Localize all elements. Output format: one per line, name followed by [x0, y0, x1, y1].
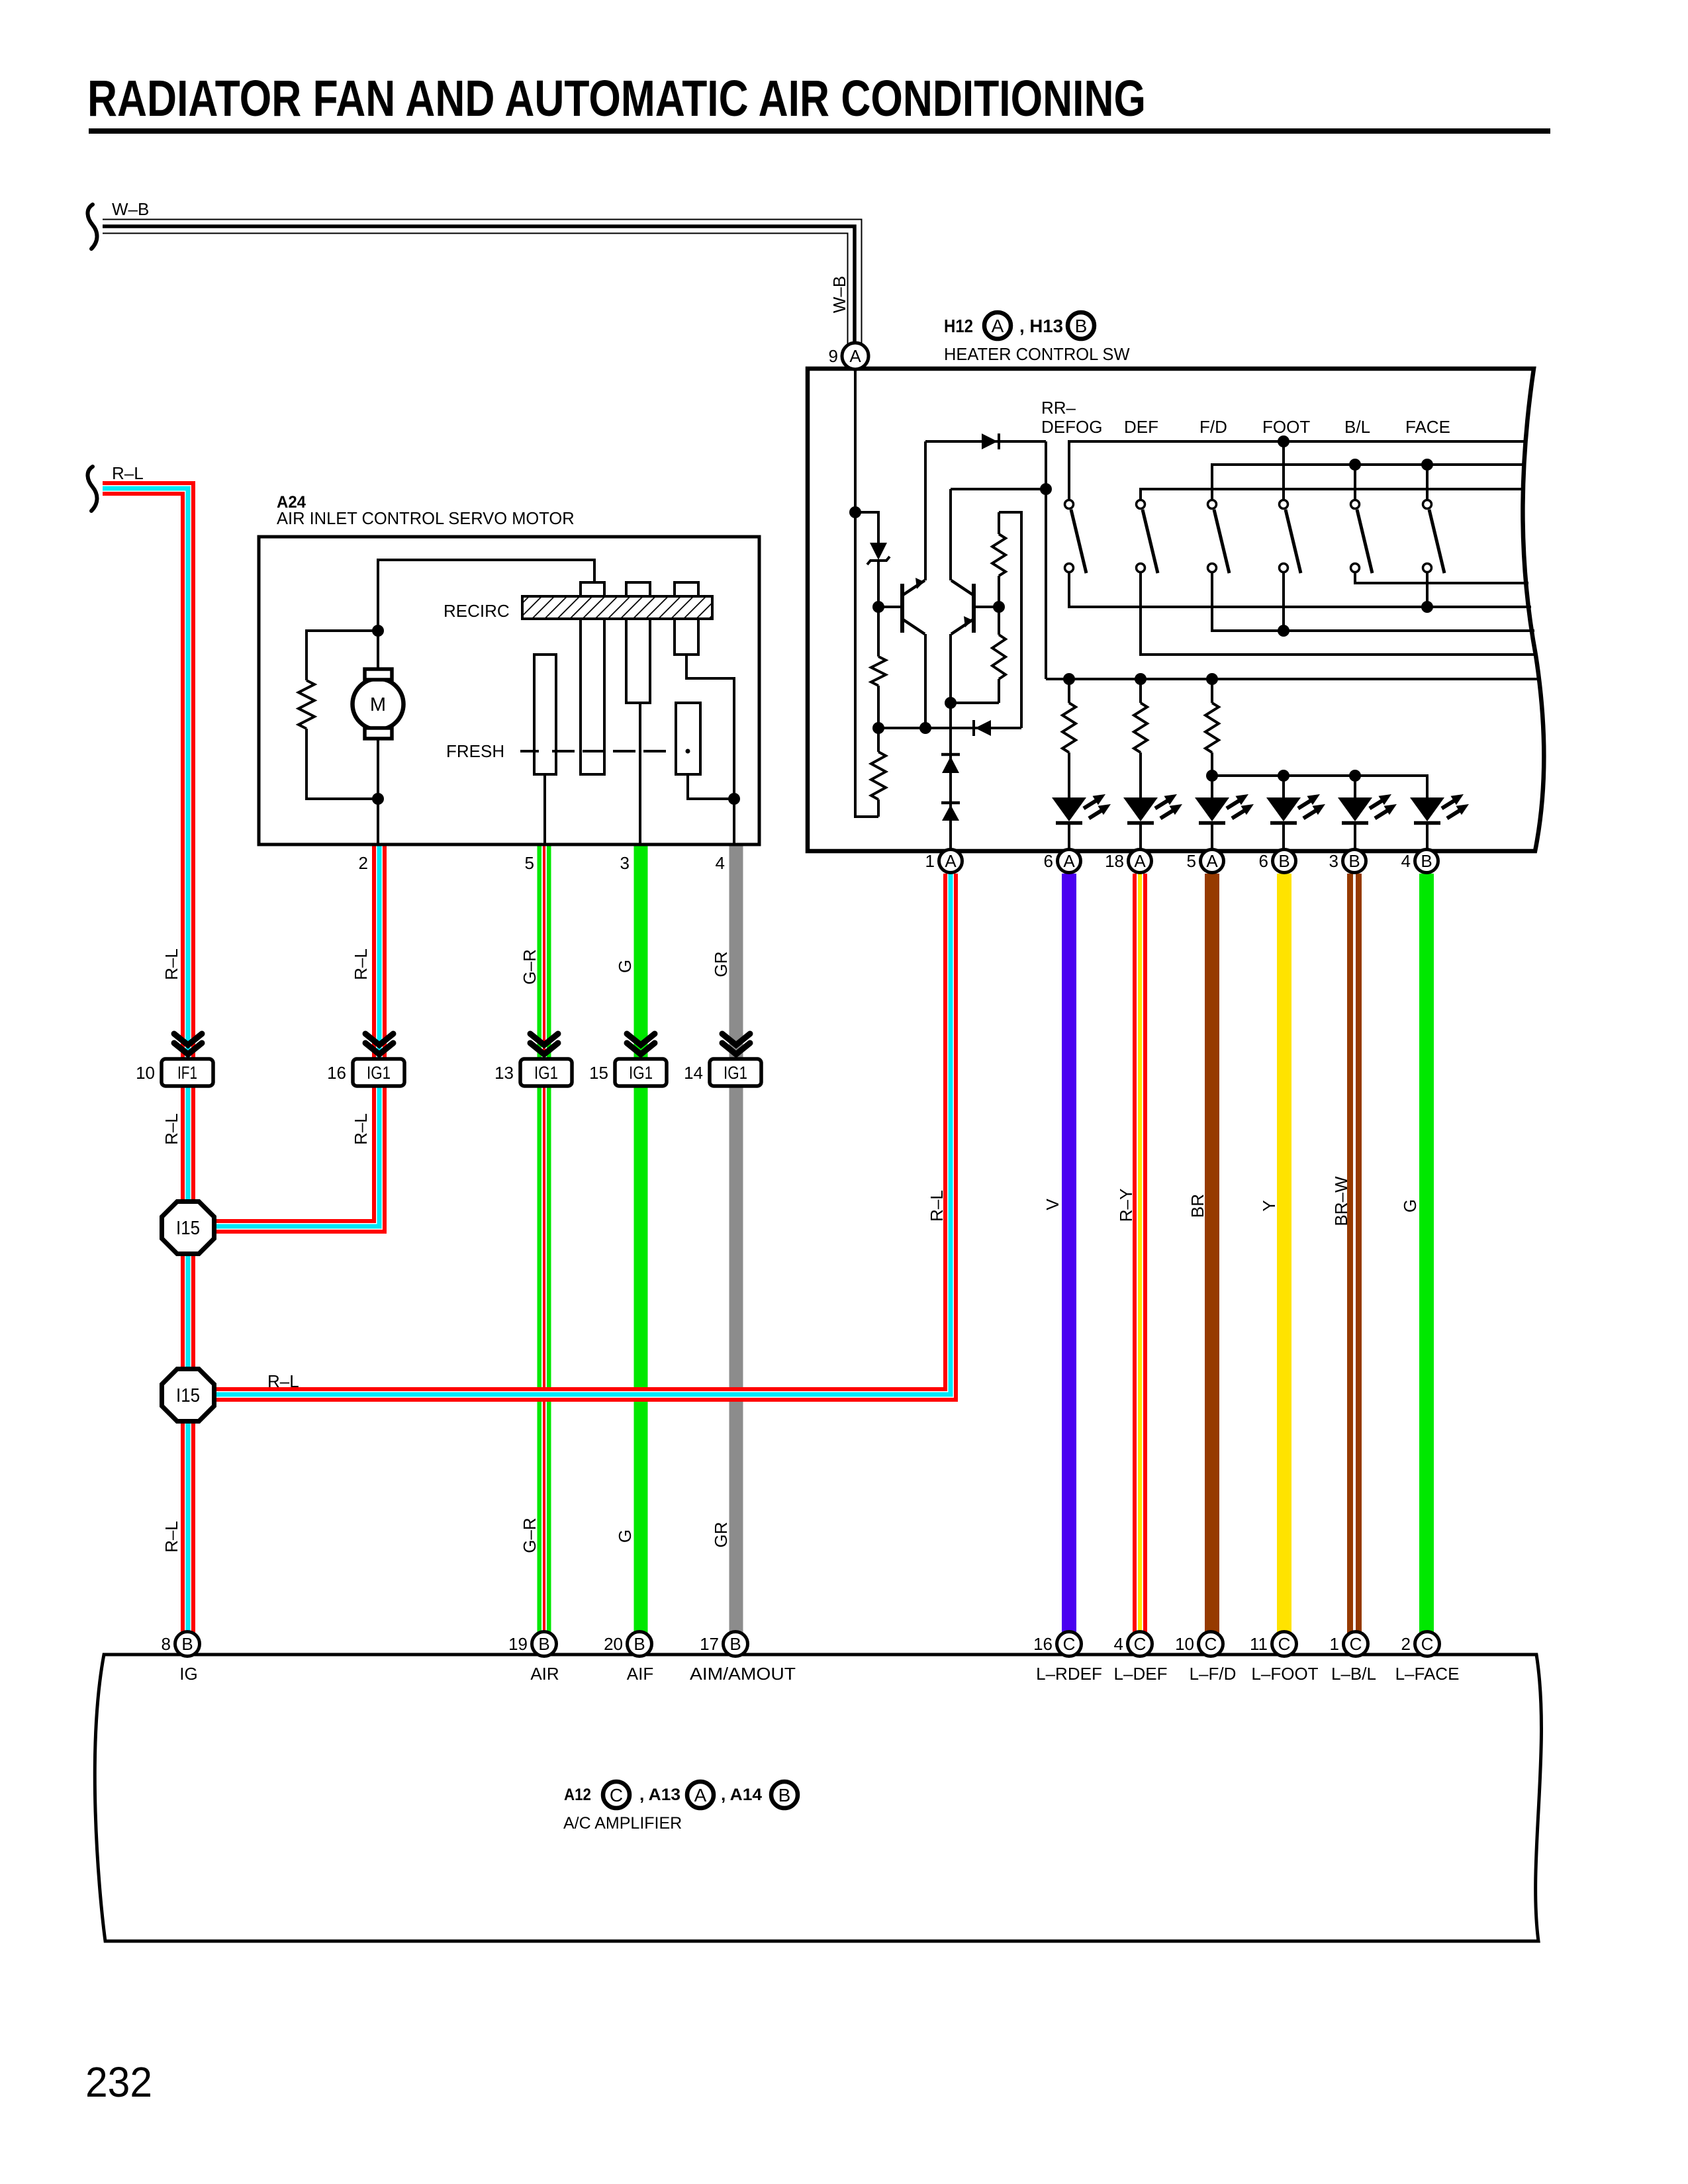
svg-text:B: B	[181, 1634, 193, 1654]
diode D3	[941, 753, 960, 756]
junction Q1 base node	[872, 601, 884, 613]
svg-text:I15: I15	[176, 1385, 200, 1406]
connector 14 IG1	[710, 1059, 761, 1086]
wire B/L LED lead	[1354, 776, 1356, 797]
svg-text:IG1: IG1	[629, 1063, 653, 1083]
svg-text:BR–W: BR–W	[1331, 1176, 1351, 1226]
svg-text:GR: GR	[711, 1522, 731, 1548]
svg-text:IG: IG	[179, 1664, 197, 1684]
svg-text:R–L: R–L	[267, 1371, 299, 1391]
wire W-B outer thin	[103, 220, 862, 344]
junction Q2 collector net	[1040, 483, 1052, 495]
resistor R5 leads	[877, 728, 880, 752]
resistor R7	[1134, 703, 1147, 752]
wire net N6 (F/D,FOOT bottoms)	[1212, 572, 1534, 631]
svg-text:20: 20	[604, 1634, 623, 1654]
connector circle A13 A	[687, 1782, 714, 1808]
svg-text:G: G	[615, 1529, 635, 1543]
chevron arrows x822	[530, 1034, 558, 1045]
junction N6 FOOT	[1278, 625, 1289, 637]
wire R3 to emitter column	[951, 702, 999, 704]
switch F/D	[1214, 510, 1229, 573]
svg-text:C: C	[1278, 1634, 1291, 1654]
svg-text:A24: A24	[277, 493, 306, 512]
svg-text:RADIATOR FAN AND AUTOMATIC AIR: RADIATOR FAN AND AUTOMATIC AIR CONDITION…	[87, 70, 1146, 127]
svg-text:G–R: G–R	[520, 1518, 539, 1553]
resistor R4	[871, 657, 886, 686]
wire Q2 collector up	[949, 489, 952, 580]
wire R-Y 18A to 4C	[1133, 874, 1147, 1633]
wire FOOT top lead	[1282, 441, 1285, 500]
svg-text:4: 4	[1114, 1634, 1123, 1654]
svg-text:R–L: R–L	[112, 463, 144, 483]
svg-text:RECIRC: RECIRC	[444, 601, 510, 621]
wire motor top lead	[377, 631, 379, 669]
diode D2	[975, 720, 991, 736]
wire BR-W 3B to 1C	[1347, 874, 1362, 1633]
junction A24 top	[372, 625, 384, 637]
svg-text:L–B/L: L–B/L	[1331, 1664, 1376, 1684]
wire B/L top lead	[1354, 465, 1356, 500]
svg-text:L–FACE: L–FACE	[1395, 1664, 1460, 1684]
svg-text:GR: GR	[711, 952, 731, 978]
svg-text:4: 4	[1401, 851, 1411, 871]
connector circle A14 B	[771, 1782, 798, 1808]
svg-text:I15: I15	[176, 1218, 200, 1239]
wire net N2 (F/D,B/L,FACE tops)	[1212, 465, 1524, 500]
svg-text:L–FOOT: L–FOOT	[1251, 1664, 1318, 1684]
svg-text:, H13: , H13	[1019, 316, 1063, 336]
junction bus B/L LED	[1349, 770, 1361, 782]
svg-text:5: 5	[525, 853, 534, 873]
svg-text:A: A	[1063, 851, 1075, 871]
wire A24 top bus	[378, 560, 594, 631]
svg-text:B: B	[1278, 851, 1289, 871]
svg-text:R–L: R–L	[162, 948, 181, 980]
svg-text:4: 4	[716, 853, 725, 873]
pin 1 connector C amplifier	[1344, 1632, 1368, 1657]
svg-text:8: 8	[162, 1634, 171, 1654]
svg-text:1: 1	[1330, 1634, 1339, 1654]
wire LED anode bus	[1212, 776, 1427, 797]
junction N1 FOOT	[1278, 435, 1289, 447]
svg-text:R–Y: R–Y	[1116, 1189, 1136, 1222]
fresh contact right	[676, 703, 700, 774]
recirc slider 3	[675, 582, 698, 655]
svg-text:AIM/AMOUT: AIM/AMOUT	[690, 1664, 796, 1684]
wire slider3 to node	[686, 655, 734, 799]
svg-text:1: 1	[925, 851, 935, 871]
svg-text:RR–: RR–	[1041, 398, 1076, 418]
recirc slider 1	[581, 582, 604, 774]
wire G 4B to 2C	[1419, 874, 1434, 1633]
transistor Q2	[972, 584, 976, 633]
W-B continuation brace	[87, 205, 97, 249]
svg-text:B: B	[1421, 851, 1432, 871]
svg-text:V: V	[1043, 1199, 1062, 1210]
svg-text:IG1: IG1	[367, 1063, 391, 1083]
svg-text:R–L: R–L	[351, 948, 371, 980]
chevron arrows x968	[627, 1034, 655, 1045]
resistor R4 leads	[877, 607, 880, 657]
node I15 lower	[162, 1369, 214, 1422]
svg-text:H12: H12	[944, 316, 973, 336]
junction Q2 base node	[993, 601, 1005, 613]
wire Q1 emitter up	[924, 441, 927, 580]
wire motor bottom lead	[377, 739, 379, 799]
wire FOOT LED lead	[1282, 776, 1285, 797]
junction feed R6	[1063, 673, 1075, 685]
wire net N3 (DEF top)	[1141, 489, 1523, 500]
svg-text:FOOT: FOOT	[1262, 417, 1310, 437]
svg-text:B: B	[729, 1634, 741, 1654]
svg-text:10: 10	[1175, 1634, 1194, 1654]
wire W-B inner thin	[103, 234, 848, 344]
pin 8 connector B amplifier	[175, 1632, 200, 1657]
wire Y 6B to 11C	[1277, 874, 1291, 1633]
resistor R8	[1205, 703, 1219, 752]
heater control SW box	[808, 369, 1544, 851]
LED D10 B/L	[1338, 797, 1372, 821]
connector 13 IG1	[520, 1059, 572, 1086]
motor M A24	[353, 679, 404, 730]
svg-text:16: 16	[327, 1063, 346, 1083]
svg-text:6: 6	[1259, 851, 1268, 871]
connector 16 IG1	[353, 1059, 404, 1086]
svg-text:B: B	[538, 1634, 549, 1654]
svg-text:G: G	[1400, 1199, 1420, 1212]
pin 19 connector B amplifier	[532, 1632, 557, 1657]
connector 10 IF1	[162, 1059, 213, 1086]
svg-text:14: 14	[684, 1063, 703, 1083]
R-L continuation brace	[87, 467, 97, 511]
svg-text:3: 3	[1329, 851, 1338, 871]
pin 20 connector B amplifier	[628, 1632, 652, 1657]
FRESH dashed line	[520, 750, 539, 752]
pin 10 connector C amplifier	[1199, 1632, 1223, 1657]
wire R-L main (brace to pin 8B)	[103, 488, 188, 1633]
svg-text:, A13: , A13	[639, 1786, 680, 1804]
wire fresh contact left to pin5	[543, 774, 546, 844]
junction Q1 collector node	[919, 722, 931, 734]
pin 2 connector C amplifier	[1415, 1632, 1440, 1657]
svg-text:C: C	[1134, 1634, 1147, 1654]
svg-text:FRESH: FRESH	[446, 741, 504, 761]
svg-text:C: C	[1350, 1634, 1362, 1654]
wire net N7 (DEF bottom)	[1141, 572, 1536, 655]
wire D1 to resistor feed	[1045, 441, 1047, 679]
svg-text:BR: BR	[1188, 1194, 1207, 1218]
LED D8 F/D	[1195, 797, 1229, 821]
pin 9 connector A	[842, 343, 868, 369]
wire fresh contact right lead	[688, 774, 734, 799]
junction zener tap	[849, 506, 861, 518]
A24 box	[259, 537, 759, 844]
wire Q2 emitter to pin1	[949, 634, 952, 849]
svg-text:IF1: IF1	[177, 1063, 197, 1083]
wire Q2 base lead	[974, 606, 999, 608]
wire W-B black stripe	[103, 226, 855, 343]
junction N2 FACE	[1421, 459, 1433, 471]
svg-text:11: 11	[1250, 1634, 1268, 1654]
resistor R3 leads	[998, 607, 1000, 635]
junction N5 FACE	[1421, 601, 1433, 613]
svg-text:W–B: W–B	[112, 199, 149, 219]
pin 6 connector B heater	[1273, 850, 1296, 873]
wire A24 resistor branch bottom	[306, 729, 378, 799]
wire motor to pin2	[377, 799, 379, 844]
svg-text:17: 17	[700, 1634, 719, 1654]
svg-text:13: 13	[494, 1063, 514, 1083]
svg-text:9: 9	[829, 346, 838, 366]
wire R-L A24 pin2 to I15	[214, 845, 379, 1226]
svg-text:W–B: W–B	[829, 276, 849, 313]
resistor R6	[1062, 703, 1076, 752]
svg-text:DEF: DEF	[1124, 417, 1158, 437]
junction D2 left node	[872, 722, 884, 734]
svg-text:R–L: R–L	[162, 1521, 181, 1553]
LED D9 FOOT	[1266, 797, 1301, 821]
resistor A24 R9	[299, 680, 314, 729]
switch RR-DEFOG	[1071, 510, 1086, 573]
wire G A24 pin3 to 20B	[634, 845, 648, 1633]
diode D4	[941, 801, 960, 805]
svg-text:R–L: R–L	[351, 1113, 371, 1145]
svg-text:B: B	[633, 1634, 645, 1654]
svg-text:B: B	[1075, 316, 1088, 336]
LED D11 FACE	[1410, 797, 1444, 821]
pin 4 connector B heater	[1415, 850, 1438, 873]
junction A24 pin4 node	[728, 793, 740, 805]
svg-text:2: 2	[1401, 1634, 1411, 1654]
svg-text:AIR INLET CONTROL SERVO MOTOR: AIR INLET CONTROL SERVO MOTOR	[277, 510, 575, 528]
wire D2 net	[878, 727, 1021, 729]
svg-text:F/D: F/D	[1199, 417, 1227, 437]
svg-text:A: A	[694, 1785, 707, 1805]
svg-text:A: A	[1206, 851, 1218, 871]
svg-text:15: 15	[589, 1063, 608, 1083]
wire R2 bridge	[999, 512, 1021, 728]
wire diode D1 net	[925, 440, 1046, 443]
svg-text:IG1: IG1	[724, 1063, 747, 1083]
wire resistor feed line	[1046, 678, 1538, 680]
resistor R3	[992, 635, 1006, 679]
svg-text:A: A	[992, 316, 1004, 336]
wire net N5 (RR-DEFOG/FACE bottoms)	[1069, 572, 1531, 607]
svg-text:HEATER CONTROL SW: HEATER CONTROL SW	[944, 345, 1130, 364]
chevron arrows x284	[174, 1034, 202, 1045]
pin 6 connector A heater	[1058, 850, 1081, 873]
svg-text:16: 16	[1033, 1634, 1053, 1654]
pin 1 connector A heater	[939, 850, 962, 873]
node I15 upper	[162, 1202, 214, 1254]
svg-text:IG1: IG1	[534, 1063, 558, 1083]
A/C amplifier box	[95, 1655, 1541, 1941]
chevron arrows x1112	[722, 1034, 750, 1045]
svg-text:232: 232	[85, 2058, 152, 2106]
wire zener branch	[855, 512, 878, 544]
wire Q1 collector down	[924, 634, 927, 728]
svg-text:DEFOG: DEFOG	[1041, 417, 1102, 437]
wire slider2 to pin3	[639, 703, 641, 844]
wire pin9 down	[855, 369, 878, 817]
pin 5 connector A heater	[1201, 850, 1224, 873]
junction N2 B/L	[1349, 459, 1361, 471]
svg-text:A: A	[1134, 851, 1146, 871]
recirc slider 2	[626, 582, 650, 703]
wire net N1 (RR-DEFOG/FOOT tops)	[1069, 441, 1526, 500]
junction bus FOOT LED	[1278, 770, 1289, 782]
wire node to pin4	[733, 799, 735, 844]
svg-text:5: 5	[1187, 851, 1196, 871]
wire FACE bottom lead	[1426, 572, 1429, 607]
svg-text:R–L: R–L	[927, 1190, 947, 1222]
junction feed R8	[1206, 673, 1218, 685]
svg-text:R–L: R–L	[162, 1113, 181, 1145]
svg-text:B: B	[1348, 851, 1360, 871]
connector 15 IG1	[615, 1059, 667, 1086]
junction A24 bottom	[372, 793, 384, 805]
svg-text:A/C AMPLIFIER: A/C AMPLIFIER	[563, 1814, 682, 1833]
resistor R5	[871, 752, 886, 799]
switch FACE	[1429, 510, 1444, 573]
pin 16 connector C amplifier	[1057, 1632, 1082, 1657]
resistor R6 leads	[1068, 679, 1070, 703]
pin 4 connector C amplifier	[1128, 1632, 1152, 1657]
switch FOOT	[1286, 510, 1301, 573]
svg-text:G–R: G–R	[520, 949, 539, 984]
switch DEF	[1143, 510, 1158, 573]
pin 3 connector B heater	[1343, 850, 1366, 873]
chevron arrows x573	[365, 1034, 393, 1045]
svg-text:AIR: AIR	[530, 1664, 559, 1684]
resistor R2	[992, 534, 1006, 576]
junction feed R7	[1135, 673, 1147, 685]
connector circle H12 A	[984, 312, 1011, 339]
zener diode D5	[870, 543, 887, 560]
wire GR A24 pin4 to 17B	[729, 845, 743, 1633]
svg-text:A: A	[945, 851, 957, 871]
wire BR 5A to 10C	[1205, 874, 1219, 1633]
svg-text:FACE: FACE	[1405, 417, 1450, 437]
wire Q2 collector net	[951, 488, 1046, 490]
connector circle A12 C	[603, 1782, 630, 1808]
svg-text:L–DEF: L–DEF	[1114, 1664, 1168, 1684]
fresh contact left	[534, 655, 556, 774]
svg-text:18: 18	[1105, 851, 1124, 871]
junction emitter column	[945, 697, 957, 709]
wire G-R A24 pin5 to 19B	[538, 845, 551, 1633]
svg-text:, A14: , A14	[721, 1786, 762, 1804]
svg-text:19: 19	[508, 1634, 528, 1654]
svg-text:B/L: B/L	[1344, 417, 1370, 437]
resistor R2 leads	[998, 512, 1000, 534]
svg-text:M: M	[370, 694, 386, 715]
svg-text:A: A	[849, 346, 861, 366]
wire FOOT bottom lead	[1282, 572, 1285, 631]
svg-text:A12: A12	[564, 1786, 591, 1804]
wire zener to base node	[877, 561, 880, 607]
resistor R8 leads	[1211, 679, 1213, 703]
svg-text:Y: Y	[1259, 1200, 1279, 1211]
junction bus R8	[1206, 770, 1218, 782]
svg-text:10: 10	[136, 1063, 155, 1083]
svg-text:L–RDEF: L–RDEF	[1036, 1664, 1102, 1684]
wire Q1 base lead	[878, 606, 901, 608]
transistor Q1	[900, 584, 904, 633]
svg-text:G: G	[615, 960, 635, 973]
pin 11 connector C amplifier	[1272, 1632, 1297, 1657]
svg-text:L–F/D: L–F/D	[1190, 1664, 1237, 1684]
wire net N4 (B/L bottom)	[1355, 572, 1528, 583]
pin 17 connector B amplifier	[724, 1632, 748, 1657]
svg-text:AIF: AIF	[627, 1664, 653, 1684]
svg-text:B: B	[778, 1785, 791, 1805]
title rule	[89, 128, 1550, 134]
wire A24 resistor branch top	[306, 631, 378, 680]
wire R-L heater pin1A to I15	[214, 874, 951, 1394]
diode D1	[982, 433, 998, 449]
wire FACE top lead	[1426, 465, 1429, 500]
LED D6 RR-DEFOG	[1052, 797, 1086, 821]
LED D7 DEF	[1123, 797, 1158, 821]
svg-text:6: 6	[1044, 851, 1053, 871]
svg-text:C: C	[1063, 1634, 1076, 1654]
RECIRC hatched bar	[522, 596, 712, 619]
resistor R7 leads	[1139, 679, 1142, 703]
switch B/L	[1357, 510, 1372, 573]
wire V 6A to 16C	[1062, 874, 1076, 1633]
svg-text:C: C	[1421, 1634, 1434, 1654]
pin 18 connector A heater	[1129, 850, 1152, 873]
svg-text:3: 3	[620, 853, 630, 873]
svg-text:2: 2	[359, 853, 368, 873]
svg-text:C: C	[610, 1785, 623, 1805]
connector circle H13 B	[1068, 312, 1094, 339]
svg-text:C: C	[1205, 1634, 1217, 1654]
